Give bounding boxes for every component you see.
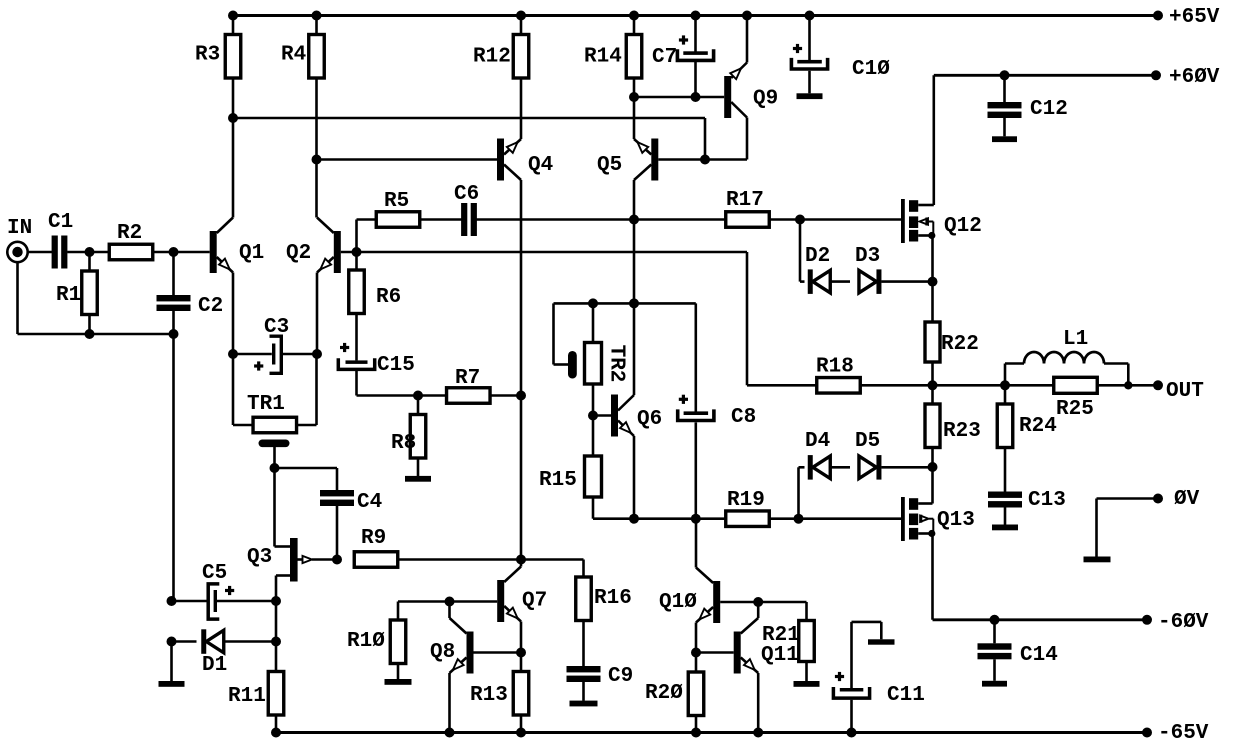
svg-text:-6ØV: -6ØV [1158, 611, 1209, 634]
svg-text:D5: D5 [855, 430, 880, 453]
svg-text:R25: R25 [1056, 398, 1094, 421]
svg-text:D3: D3 [855, 245, 880, 268]
svg-text:C1: C1 [48, 211, 73, 234]
svg-text:C2: C2 [198, 295, 223, 318]
svg-text:R7: R7 [455, 367, 480, 390]
svg-text:C5: C5 [202, 562, 227, 585]
svg-text:R6: R6 [376, 286, 401, 309]
svg-text:D2: D2 [805, 245, 830, 268]
svg-text:R4: R4 [281, 44, 306, 67]
svg-text:R19: R19 [727, 489, 765, 512]
svg-text:Q12: Q12 [944, 215, 982, 238]
svg-text:R13: R13 [470, 684, 508, 707]
svg-text:Q2: Q2 [286, 242, 311, 265]
svg-text:+65V: +65V [1169, 6, 1220, 29]
svg-text:Q1Ø: Q1Ø [659, 591, 697, 614]
svg-text:R5: R5 [384, 190, 409, 213]
svg-text:C8: C8 [731, 406, 756, 429]
svg-text:Q11: Q11 [761, 644, 799, 667]
svg-text:Q8: Q8 [430, 641, 455, 664]
svg-text:TR1: TR1 [247, 393, 285, 416]
svg-text:C6: C6 [454, 183, 479, 206]
svg-text:R17: R17 [726, 189, 764, 212]
svg-text:TR2: TR2 [605, 345, 628, 383]
svg-text:R24: R24 [1019, 415, 1057, 438]
svg-text:L1: L1 [1063, 328, 1088, 351]
svg-text:OUT: OUT [1166, 380, 1204, 403]
svg-text:Q13: Q13 [937, 509, 975, 532]
svg-text:R9: R9 [361, 527, 386, 550]
svg-text:C1Ø: C1Ø [852, 58, 890, 81]
svg-text:ØV: ØV [1174, 488, 1200, 511]
svg-text:D1: D1 [202, 654, 227, 677]
svg-text:C9: C9 [608, 665, 633, 688]
svg-text:C7: C7 [652, 46, 677, 69]
svg-text:Q4: Q4 [528, 154, 553, 177]
svg-text:Q7: Q7 [522, 590, 547, 613]
svg-text:R1: R1 [56, 284, 81, 307]
svg-text:R11: R11 [228, 685, 266, 708]
svg-text:R1Ø: R1Ø [347, 630, 385, 653]
svg-text:R15: R15 [539, 469, 577, 492]
svg-text:R18: R18 [816, 356, 854, 379]
svg-text:-65V: -65V [1158, 722, 1209, 745]
svg-text:R16: R16 [594, 587, 632, 610]
svg-text:C12: C12 [1030, 98, 1068, 121]
svg-text:C13: C13 [1028, 489, 1066, 512]
svg-text:R2: R2 [117, 222, 142, 245]
svg-text:C3: C3 [264, 316, 289, 339]
svg-text:IN: IN [7, 217, 32, 240]
svg-text:C15: C15 [377, 354, 415, 377]
svg-text:R3: R3 [195, 44, 220, 67]
svg-text:D4: D4 [805, 430, 830, 453]
svg-text:C4: C4 [357, 491, 382, 514]
svg-text:R2Ø: R2Ø [645, 682, 683, 705]
svg-text:R12: R12 [473, 46, 511, 69]
svg-text:C11: C11 [887, 684, 925, 707]
svg-text:R14: R14 [584, 46, 622, 69]
svg-text:R23: R23 [943, 420, 981, 443]
svg-text:Q1: Q1 [239, 242, 264, 265]
svg-text:+6ØV: +6ØV [1169, 66, 1220, 89]
svg-text:C14: C14 [1020, 644, 1058, 667]
svg-text:Q3: Q3 [247, 546, 272, 569]
svg-text:Q9: Q9 [753, 88, 778, 111]
svg-text:Q6: Q6 [637, 408, 662, 431]
svg-text:Q5: Q5 [597, 154, 622, 177]
svg-text:R22: R22 [941, 333, 979, 356]
svg-text:R8: R8 [391, 432, 416, 455]
